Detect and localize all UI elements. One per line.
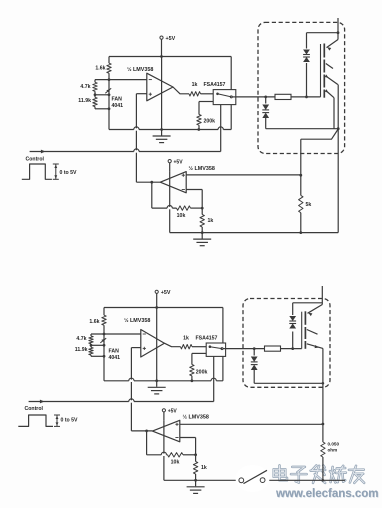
svg-text:+5V: +5V <box>168 409 178 415</box>
svg-text:½ LMV358: ½ LMV358 <box>183 414 209 421</box>
svg-text:+5V: +5V <box>174 159 184 165</box>
svg-text:0 to 5V: 0 to 5V <box>61 418 79 424</box>
svg-text:10k: 10k <box>177 213 186 219</box>
svg-text:½ LMV358: ½ LMV358 <box>127 66 153 73</box>
svg-text:www.elecfans.com: www.elecfans.com <box>275 488 378 500</box>
svg-text:4041: 4041 <box>112 103 124 109</box>
svg-text:½ LMV358: ½ LMV358 <box>189 165 215 172</box>
svg-text:11.9k: 11.9k <box>75 347 88 353</box>
svg-text:1k: 1k <box>183 336 189 342</box>
svg-text:5k: 5k <box>306 202 312 208</box>
svg-text:+5V: +5V <box>166 36 176 42</box>
svg-text:+5V: +5V <box>161 290 171 296</box>
svg-text:½ LMV358: ½ LMV358 <box>124 317 150 324</box>
svg-text:11.9k: 11.9k <box>78 98 91 104</box>
svg-text:4.7k: 4.7k <box>80 84 90 90</box>
svg-text:Control: Control <box>25 406 44 412</box>
svg-text:1.6k: 1.6k <box>95 66 105 72</box>
svg-text:200k: 200k <box>204 119 216 125</box>
svg-text:FSA4157: FSA4157 <box>204 82 226 88</box>
svg-text:200k: 200k <box>196 370 208 376</box>
svg-text:1k: 1k <box>201 465 207 471</box>
svg-text:FSA4157: FSA4157 <box>196 336 218 342</box>
svg-text:FAN: FAN <box>112 97 123 103</box>
svg-text:1k: 1k <box>208 218 214 224</box>
svg-text:0 to 5V: 0 to 5V <box>60 170 78 176</box>
svg-text:1k: 1k <box>192 82 198 88</box>
svg-text:Control: Control <box>26 157 45 163</box>
svg-text:1.6k: 1.6k <box>89 319 99 325</box>
svg-text:10k: 10k <box>171 459 180 465</box>
svg-text:ohm: ohm <box>328 447 338 452</box>
svg-text:4.7k: 4.7k <box>76 336 86 342</box>
svg-text:FAN: FAN <box>109 349 120 355</box>
svg-text:4041: 4041 <box>109 355 121 361</box>
svg-text:0.050: 0.050 <box>328 442 340 447</box>
